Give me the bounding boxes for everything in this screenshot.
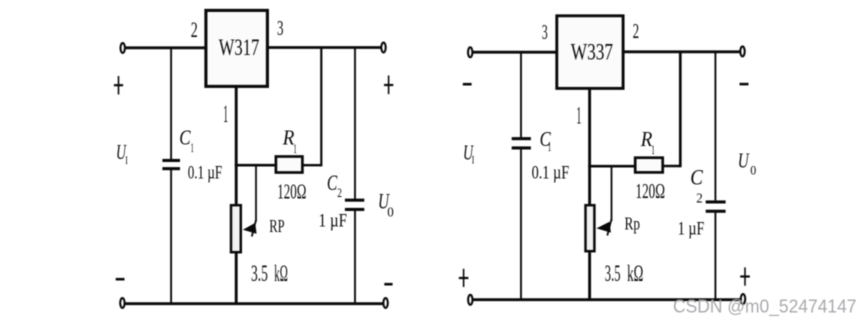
terminal: input bottom-left bbox=[120, 298, 124, 308]
wire: top input rail bbox=[126, 46, 206, 49]
svg-text:1 µF: 1 µF bbox=[319, 212, 348, 232]
svg-text:I: I bbox=[125, 153, 128, 167]
wire: R1 right to output rail bbox=[304, 47, 322, 167]
terminal: input bottom-left (right circuit) bbox=[468, 295, 472, 305]
capacitor C1 bbox=[162, 159, 180, 170]
svg-text:kΩ: kΩ bbox=[274, 261, 288, 287]
label minus input bbox=[116, 278, 125, 281]
svg-text:120Ω: 120Ω bbox=[636, 179, 666, 203]
svg-text:0: 0 bbox=[750, 162, 756, 177]
regulator U2 W337 bbox=[557, 16, 623, 89]
capacitor C2 (right circuit) bbox=[706, 200, 726, 212]
capacitor C2 bottom lead (right circuit) bbox=[714, 213, 716, 300]
svg-text:U: U bbox=[738, 149, 750, 173]
label UI input voltage (right circuit) bbox=[463, 141, 474, 167]
regulator U1 W317 bbox=[206, 10, 268, 86]
terminal: output top-right (right circuit) bbox=[740, 46, 744, 56]
label minus output bbox=[384, 283, 392, 286]
label R1 bbox=[282, 126, 297, 156]
label plus output bbox=[384, 76, 393, 95]
pin 1 label bbox=[223, 101, 228, 128]
potentiometer RP wiper arrow bbox=[243, 220, 257, 237]
svg-text:RP: RP bbox=[269, 216, 284, 236]
label plus input bbox=[114, 76, 123, 95]
svg-text:3: 3 bbox=[277, 16, 284, 40]
label C1 (right circuit) bbox=[540, 127, 552, 154]
pin 3 label (right circuit) bbox=[542, 20, 548, 44]
wire: top input rail (right circuit) bbox=[473, 51, 557, 54]
label UI input voltage bbox=[116, 140, 128, 167]
label minus input (right circuit) bbox=[463, 83, 472, 86]
label plus output (right circuit) bbox=[740, 267, 750, 285]
terminal: output bottom-right (right circuit) bbox=[741, 294, 745, 304]
potentiometer Rp body (right circuit) bbox=[586, 205, 595, 251]
wire: bottom ground rail (right circuit) bbox=[473, 298, 740, 301]
capacitor C1 bottom lead (right circuit) bbox=[520, 149, 522, 300]
svg-text:W317: W317 bbox=[219, 35, 259, 60]
terminal: input top-left bbox=[121, 43, 125, 53]
capacitor C2 bbox=[345, 199, 364, 211]
svg-text:3.5: 3.5 bbox=[251, 261, 268, 287]
resistor R1 bbox=[276, 157, 303, 173]
label 0.1 uF (right circuit) bbox=[532, 164, 570, 184]
wire: top output rail (right circuit) bbox=[624, 50, 740, 53]
capacitor C1 top lead (right circuit) bbox=[520, 52, 522, 138]
label 1 uF bbox=[319, 212, 348, 232]
svg-text:1: 1 bbox=[576, 103, 581, 130]
label UO output voltage (right circuit) bbox=[738, 149, 757, 178]
wire: wiper feed (right circuit) bbox=[611, 165, 613, 221]
svg-text:W337: W337 bbox=[571, 40, 613, 65]
pin 2 label (right circuit) bbox=[633, 19, 640, 43]
label 120 ohm (right circuit) bbox=[636, 179, 666, 203]
svg-text:I: I bbox=[472, 153, 475, 167]
terminal: output top-right bbox=[381, 43, 385, 53]
label 3.5 kOhm (right circuit) bbox=[605, 261, 644, 287]
svg-text:2: 2 bbox=[696, 192, 703, 207]
label C2 bbox=[327, 170, 342, 200]
svg-text:kΩ: kΩ bbox=[627, 261, 643, 287]
capacitor C1 (right circuit) bbox=[512, 137, 531, 149]
capacitor C2 top lead (right circuit) bbox=[714, 51, 716, 200]
svg-text:1: 1 bbox=[293, 141, 296, 156]
svg-text:120Ω: 120Ω bbox=[277, 179, 306, 203]
resistor R1 (right circuit) bbox=[635, 158, 663, 173]
wire: R1 right to output rail (right circuit) bbox=[663, 51, 680, 167]
capacitor C2 bottom lead bbox=[354, 211, 356, 304]
svg-text:2: 2 bbox=[191, 17, 198, 42]
label plus input (right circuit) bbox=[459, 269, 469, 287]
label minus output (right circuit) bbox=[740, 83, 749, 86]
svg-text:C: C bbox=[327, 170, 338, 195]
svg-text:3: 3 bbox=[542, 20, 548, 44]
svg-text:0.1 µF: 0.1 µF bbox=[532, 164, 570, 184]
label R1 (right circuit) bbox=[640, 127, 655, 157]
svg-text:1: 1 bbox=[548, 139, 552, 154]
wire: top output rail bbox=[269, 46, 382, 49]
wire: pin 1 to adjust node (right circuit) bbox=[588, 89, 591, 205]
potentiometer RP body bbox=[231, 205, 241, 252]
terminal: output bottom-right bbox=[383, 298, 387, 308]
svg-text:2: 2 bbox=[633, 19, 640, 43]
wire: pin 1 to adjust node bbox=[235, 88, 238, 205]
pin 3 label bbox=[277, 16, 284, 40]
svg-text:C: C bbox=[179, 126, 191, 150]
label UO output voltage bbox=[378, 188, 394, 220]
wire: adjust node to R1 left bbox=[235, 164, 277, 167]
svg-text:CSDN @m0_52474147: CSDN @m0_52474147 bbox=[673, 296, 857, 317]
label 1 uF (right circuit) bbox=[678, 220, 705, 240]
wire: RP bottom to ground rail bbox=[235, 253, 238, 305]
capacitor C1 top lead bbox=[170, 47, 172, 160]
capacitor C1 bottom lead bbox=[170, 170, 172, 304]
wire: Rp bottom to ground rail (right circuit) bbox=[588, 251, 591, 300]
capacitor C2 top lead bbox=[354, 47, 356, 200]
label Rp (right circuit) bbox=[625, 214, 641, 234]
svg-text:0.1 µF: 0.1 µF bbox=[188, 164, 223, 184]
wire: adjust node to R1 left (right circuit) bbox=[588, 165, 635, 168]
svg-text:C: C bbox=[690, 164, 703, 189]
terminal: input top-left (right circuit) bbox=[468, 47, 472, 57]
watermark CSDN bbox=[673, 296, 857, 317]
svg-text:1: 1 bbox=[651, 142, 655, 157]
svg-text:3.5: 3.5 bbox=[605, 261, 621, 287]
label C2 (right circuit) bbox=[690, 164, 703, 206]
label 0.1 uF bbox=[188, 164, 223, 184]
svg-text:1: 1 bbox=[191, 140, 194, 155]
wire: bottom ground rail bbox=[126, 302, 384, 305]
pin 2 label bbox=[191, 17, 198, 42]
svg-text:1 µF: 1 µF bbox=[678, 220, 705, 240]
svg-text:2: 2 bbox=[337, 185, 342, 200]
label C1 bbox=[179, 126, 194, 156]
pin 1 label (right circuit) bbox=[576, 103, 581, 130]
label 3.5 kOhm bbox=[251, 261, 288, 287]
svg-text:0: 0 bbox=[387, 205, 394, 220]
potentiometer Rp wiper arrow (right circuit) bbox=[596, 219, 611, 236]
label 120 ohm bbox=[277, 179, 306, 203]
svg-text:1: 1 bbox=[223, 101, 228, 128]
svg-text:Rp: Rp bbox=[625, 214, 641, 234]
label RP bbox=[269, 216, 284, 236]
wire: wiper feed bbox=[255, 164, 257, 221]
